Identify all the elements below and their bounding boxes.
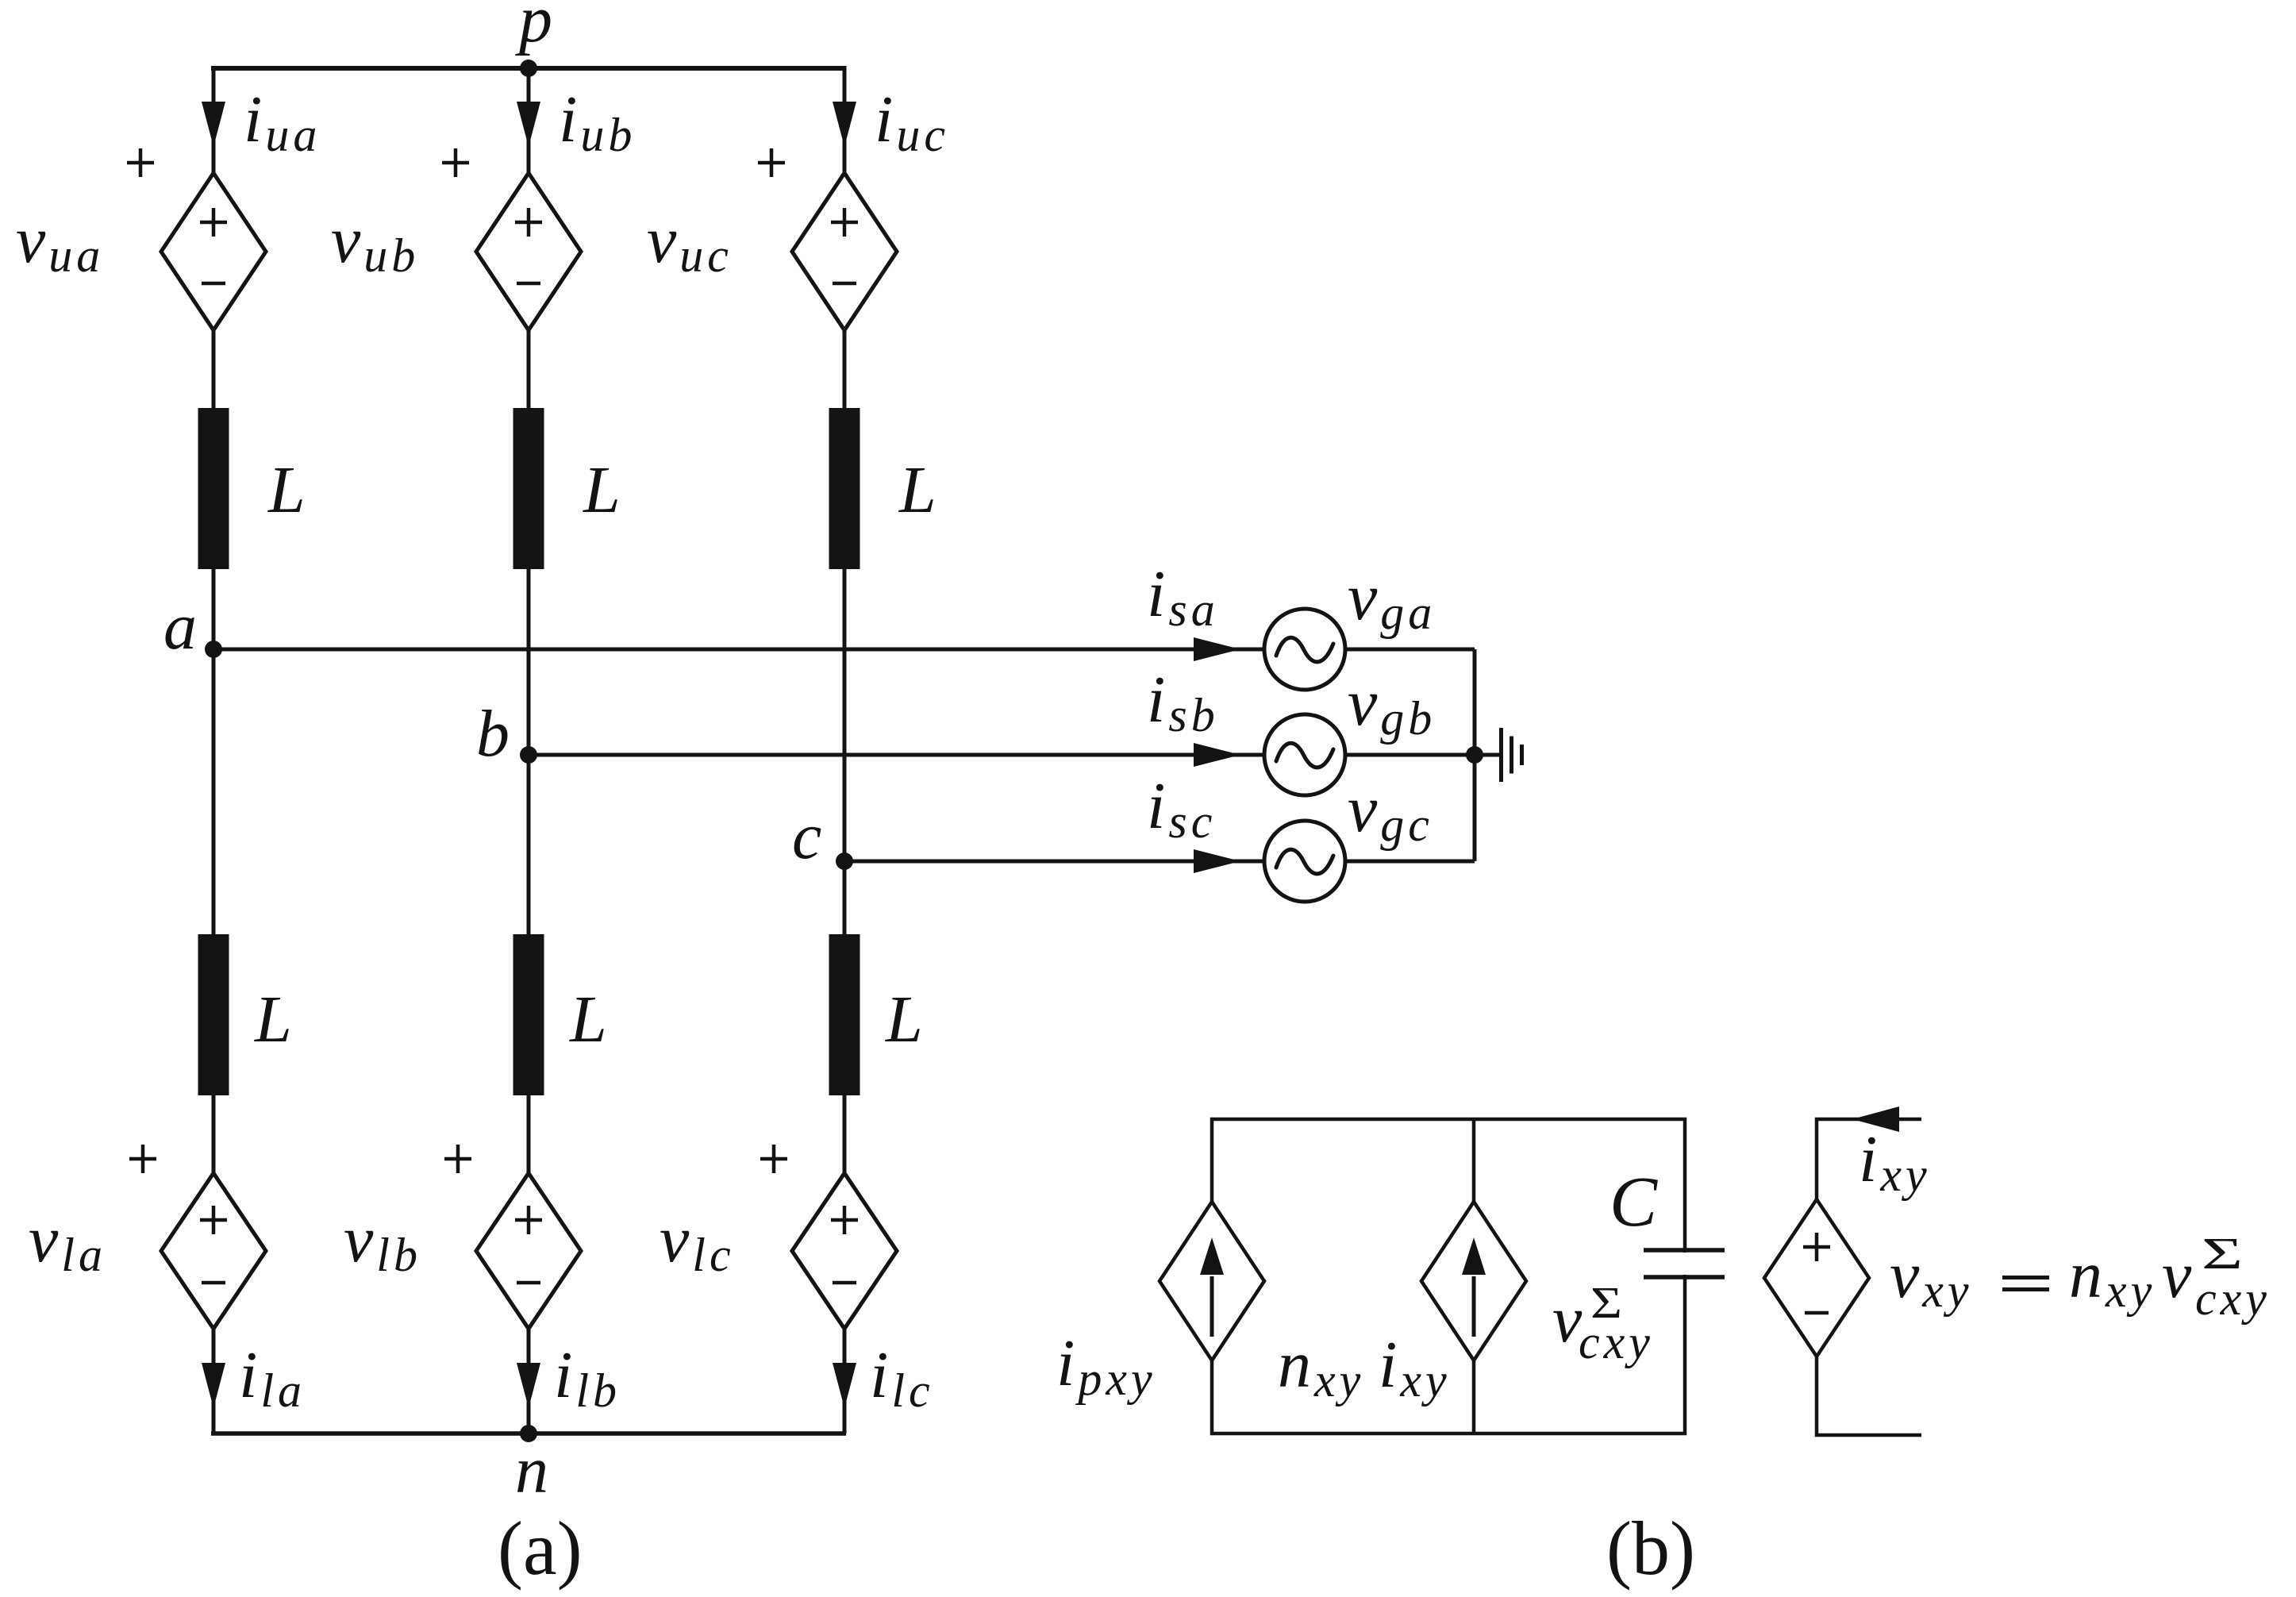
wire equivalent-circuit loop (part b rectangle) [1212, 1119, 1685, 1433]
source v_la (lower arm controlled voltage source) [161, 1173, 266, 1329]
wire phase-b arm (vertical column) [527, 66, 531, 1433]
svg-text:n: n [515, 1433, 548, 1507]
svg-text:L: L [885, 983, 923, 1056]
wire grid bus (right vertical) [1473, 649, 1477, 861]
svg-text:L: L [267, 453, 306, 527]
wire node a to grid source v_ga [213, 648, 1475, 652]
source i_pxy (current source) [1160, 1202, 1264, 1360]
svg-text:cxy: cxy [2195, 1272, 2271, 1325]
inductor L upper arm phase c [829, 408, 860, 569]
polarity + of v_ub [442, 148, 469, 177]
svg-text:cxy: cxy [1579, 1316, 1654, 1368]
polarity + of v_lc [760, 1145, 787, 1173]
arrow current i_xy [1852, 1106, 1899, 1132]
arrow current i_sb [1194, 743, 1240, 767]
source v_gc (grid AC source) [1264, 821, 1345, 902]
svg-text:(b): (b) [1606, 1506, 1695, 1591]
node n [520, 1425, 537, 1442]
node p [520, 60, 537, 77]
node c [836, 852, 853, 870]
wire v_xy branch top [1817, 1119, 1921, 1199]
wire v_xy branch bottom [1817, 1356, 1921, 1435]
wire node b to grid source v_gb [529, 753, 1475, 757]
node a [205, 641, 222, 658]
ground [1475, 753, 1499, 757]
svg-text:L: L [254, 983, 292, 1056]
svg-text:b: b [476, 697, 510, 771]
inductor L upper arm phase b [513, 408, 544, 569]
arrow current i_la [202, 1363, 225, 1408]
wire bottom bus (node n rail) [211, 1431, 846, 1436]
svg-text:p: p [515, 0, 552, 56]
source v_xy (dependent voltage source) [1764, 1199, 1869, 1356]
svg-text:Σ: Σ [2202, 1229, 2243, 1279]
wire phase-c arm (vertical column) [843, 66, 847, 1433]
arrow current i_lb [517, 1363, 540, 1408]
arrow current i_lc [833, 1363, 856, 1408]
wire node c to grid source v_gc [844, 860, 1475, 864]
source v_lc (lower arm controlled voltage source) [792, 1173, 897, 1329]
wire top bus (node p rail) [211, 66, 846, 71]
svg-text:c: c [792, 799, 821, 873]
polarity + of v_lb [444, 1145, 471, 1173]
source v_uc (upper arm controlled voltage source) [792, 173, 897, 330]
svg-text:a: a [163, 590, 197, 664]
polarity + of v_ua [127, 148, 154, 177]
polarity + of v_la [129, 1145, 156, 1173]
svg-text:v: v [2162, 1238, 2192, 1312]
inductor L lower arm phase c [829, 934, 860, 1095]
source v_gb (grid AC source) [1264, 714, 1345, 795]
source n_xy i_xy (dependent current source) [1421, 1202, 1526, 1360]
arrow current i_uc [833, 102, 856, 147]
svg-text:(a): (a) [498, 1506, 583, 1591]
source v_lb (lower arm controlled voltage source) [476, 1173, 581, 1329]
source v_ua (upper arm controlled voltage source) [161, 173, 266, 330]
arrow current i_sa [1194, 637, 1240, 661]
inductor L upper arm phase a [198, 408, 229, 569]
svg-text:L: L [569, 983, 607, 1056]
capacitor C gap mask [1667, 1253, 1703, 1275]
svg-text:L: L [583, 453, 621, 527]
polarity + of v_uc [758, 148, 785, 177]
capacitor C plates [1644, 1248, 1725, 1253]
arrow current i_ua [202, 102, 225, 147]
inductor L lower arm phase a [198, 934, 229, 1095]
junction node (grid neutral) [1466, 746, 1483, 764]
node b [520, 746, 537, 764]
arrow current i_ub [517, 102, 540, 147]
arrow current i_sc [1194, 849, 1240, 873]
svg-text:L: L [898, 453, 936, 527]
inductor L lower arm phase b [513, 934, 544, 1095]
wire middle branch (part b) [1472, 1119, 1476, 1433]
wire phase-a arm (vertical column) [212, 66, 216, 1433]
source v_ga (grid AC source) [1264, 609, 1345, 690]
source v_ub (upper arm controlled voltage source) [476, 173, 581, 330]
svg-text:C: C [1610, 1163, 1658, 1241]
